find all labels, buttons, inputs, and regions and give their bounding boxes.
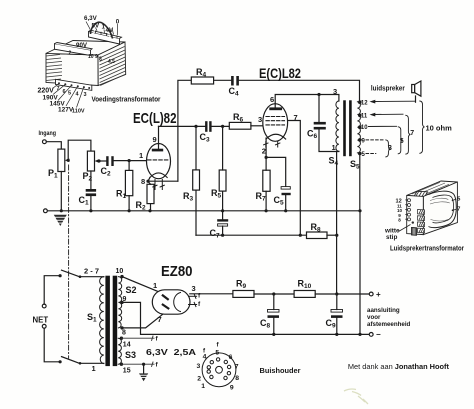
capacitor C9 <box>331 310 343 318</box>
svg-text:1: 1 <box>153 281 157 290</box>
wire P1 bottom to rail <box>60 172 62 211</box>
svg-text:15: 15 <box>123 368 131 375</box>
EZ80 anode 7 bar <box>163 305 169 309</box>
wire tap10 to EZ80 anode pin 1 <box>122 277 158 292</box>
node dot R2 bottom <box>148 209 151 212</box>
wire P2 wiper to C2 <box>100 160 106 162</box>
wire R5 top <box>222 126 224 170</box>
loudspeaker transformer pictorial <box>399 181 458 235</box>
wire pin8 to R2 <box>149 182 151 184</box>
terminal strip rear <box>89 32 120 45</box>
tube socket Buishouder <box>202 353 236 387</box>
svg-text:2: 2 <box>69 51 72 57</box>
svg-text:2: 2 <box>262 147 266 156</box>
C9 leads <box>336 294 338 310</box>
svg-text:luidspreker: luidspreker <box>371 84 405 93</box>
wire loop on top <box>91 22 113 38</box>
node dot R8 left <box>299 234 302 237</box>
wire P1 wiper to P2 top <box>68 140 91 160</box>
node dot C9 bottom <box>335 333 338 336</box>
coil band on right face <box>429 191 457 227</box>
svg-text:NET: NET <box>33 316 49 325</box>
wire C3 to R6 <box>212 125 230 127</box>
svg-text:1: 1 <box>139 151 143 160</box>
resistor R3 <box>193 170 200 190</box>
svg-text:6: 6 <box>229 354 233 361</box>
svg-text:9: 9 <box>153 135 157 144</box>
svg-text:3: 3 <box>258 115 262 124</box>
potentiometer P1 <box>58 149 65 171</box>
transformer body box <box>46 53 98 85</box>
svg-text:7: 7 <box>158 315 162 324</box>
resistor R8 <box>307 232 328 239</box>
svg-text:10 ohm: 10 ohm <box>426 124 453 133</box>
bracket 3 ohm <box>386 140 391 157</box>
wire R1 bottom to rail <box>128 196 130 211</box>
svg-text:5: 5 <box>457 197 460 203</box>
svg-text:1: 1 <box>332 143 336 152</box>
witte stip dot <box>412 221 414 223</box>
C6 leads <box>318 95 320 122</box>
svg-text:2 - 7: 2 - 7 <box>84 267 99 276</box>
ground rail left terminal <box>44 209 48 213</box>
EZ80 filament stubs <box>189 294 197 306</box>
svg-text:4,5: 4,5 <box>108 59 115 65</box>
Ingang input terminal <box>43 140 47 144</box>
node dot R7 bottom <box>265 209 268 212</box>
winding lug ladder <box>418 210 425 233</box>
filament line tap14 <box>121 336 154 340</box>
pentode cathode pin 2 node <box>265 156 268 159</box>
svg-text:5: 5 <box>215 350 219 357</box>
mains switch upper <box>59 270 104 278</box>
mains switch lower <box>59 357 104 365</box>
witte stip arrow <box>399 225 411 232</box>
svg-text:3: 3 <box>197 363 201 370</box>
front face <box>407 195 424 234</box>
svg-text:8: 8 <box>122 330 126 337</box>
wire P2 bottom to C1 <box>90 171 92 189</box>
svg-text:2: 2 <box>197 375 201 382</box>
wire R8 right <box>327 234 337 236</box>
svg-text:10: 10 <box>116 268 124 275</box>
output transformer S5 secondary winding <box>357 102 360 153</box>
svg-text:5: 5 <box>400 138 404 145</box>
svg-text:12: 12 <box>361 101 368 107</box>
ground symbol <box>53 215 68 226</box>
feedback top rail to speaker tap 12 <box>239 80 360 102</box>
wire R3 bottom to B+ node line <box>195 190 197 235</box>
resistor R5 <box>219 170 226 191</box>
loudspeaker transformer pin labels <box>396 197 461 223</box>
svg-text:voor: voor <box>367 314 381 321</box>
capacitor C1 <box>86 189 96 196</box>
svg-text:0: 0 <box>116 19 120 26</box>
wire R2 bottom to rail <box>150 204 152 211</box>
wire pin2 to R7 <box>265 157 267 170</box>
node dot tap15 ground <box>142 363 145 366</box>
terminal circles column <box>408 199 411 221</box>
svg-text:14: 14 <box>123 342 131 349</box>
svg-text:90V: 90V <box>76 42 88 49</box>
tap 5 dashed line <box>366 153 376 155</box>
NET terminal lower <box>42 324 46 328</box>
node dot R1 bottom <box>128 209 131 212</box>
svg-text:3: 3 <box>192 284 196 293</box>
bottom terminal dots <box>58 82 90 89</box>
svg-text:8: 8 <box>235 375 239 382</box>
node dot P1 bottom <box>60 209 63 212</box>
svg-text:stip: stip <box>386 234 397 241</box>
svg-text:−: − <box>376 330 381 339</box>
wire C2 to triode grid pin 1 <box>114 160 147 162</box>
P2 wiper arrow <box>95 159 101 163</box>
wire input to P1 top <box>46 142 61 149</box>
hatching right face <box>100 47 126 86</box>
tap 10 line <box>369 125 397 127</box>
svg-text:1: 1 <box>201 383 205 390</box>
wire R10 to plus terminal <box>315 293 369 295</box>
svg-text:Luidsprekertransformator: Luidsprekertransformator <box>390 246 464 253</box>
top face hatching <box>412 182 449 195</box>
wire R4 to C4 <box>214 79 232 81</box>
svg-text:8: 8 <box>99 57 102 63</box>
leader lines top labels <box>86 22 118 36</box>
node dot rail to B-minus <box>358 209 361 212</box>
resistor R9 <box>233 291 254 298</box>
pentode anode plate <box>269 104 282 111</box>
top lug block <box>414 191 428 198</box>
EZ80 anode 1 bar <box>163 295 168 299</box>
S2 tap dots 10 9 8 <box>120 275 123 330</box>
speaker icon <box>412 81 421 102</box>
scan smudges <box>344 389 368 404</box>
wire R9 to R10 <box>254 293 294 295</box>
svg-text:11: 11 <box>361 114 368 120</box>
C8 leads <box>273 294 275 310</box>
wire S4 bottom down to B plus <box>336 152 338 294</box>
svg-text:S3: S3 <box>125 350 136 360</box>
triode filament stubs f f <box>153 180 165 190</box>
svg-text:6: 6 <box>270 95 274 104</box>
node dot R8 right <box>335 234 338 237</box>
EZ80 cathode pin 3 wire to R9 <box>190 293 233 295</box>
filament line tap15 <box>121 362 154 366</box>
feedback riser R4 to cathode <box>178 80 191 181</box>
cathode line to feedback riser <box>148 178 178 182</box>
node dot B plus S4 riser <box>335 292 338 295</box>
capacitor C2 <box>106 156 114 166</box>
svg-text:E(C)L82: E(C)L82 <box>259 66 301 81</box>
wire NET to upper switch <box>44 276 60 304</box>
NET terminal upper <box>42 304 46 308</box>
triode anode plate <box>152 144 163 152</box>
resistor R6 <box>229 122 251 129</box>
lamination hatching left <box>46 55 62 81</box>
wire cathode down <box>265 138 267 157</box>
wire C7 leads <box>222 211 224 219</box>
power transformer voltage labels <box>69 15 120 65</box>
svg-text:9: 9 <box>123 296 127 303</box>
node dot C1 bottom <box>89 209 92 212</box>
svg-text:7: 7 <box>410 130 414 137</box>
power transformer core <box>105 276 117 366</box>
socket pin labels <box>197 342 240 392</box>
node dot C7 bottom <box>221 234 224 237</box>
capacitor C6 <box>314 122 326 130</box>
bottom terminal strip <box>56 79 92 90</box>
wire pin9 anode up <box>158 126 160 143</box>
right pin ticks <box>453 199 457 210</box>
svg-text:7: 7 <box>294 113 298 122</box>
svg-text:Ingang: Ingang <box>39 130 57 137</box>
terminal pins rear strip <box>90 30 117 39</box>
output transformer core <box>343 100 352 156</box>
svg-text:7: 7 <box>235 364 239 371</box>
wire S5 bottom tap5 to rail <box>359 154 361 211</box>
svg-text:7: 7 <box>57 86 60 92</box>
node dot R5 top <box>221 125 224 128</box>
terminal ticks left <box>405 200 407 220</box>
wire R5 bottom to rail <box>222 191 224 211</box>
tap 11 arrow line <box>370 113 404 117</box>
svg-text:3: 3 <box>333 87 337 96</box>
ground symbol S3 <box>138 364 149 381</box>
triode cathode arc <box>150 173 167 178</box>
node dot C8 bottom <box>272 333 275 336</box>
svg-text:10 9: 10 9 <box>88 54 98 60</box>
bracket 5 ohm <box>398 127 403 154</box>
tap 9 dashed line <box>366 139 385 141</box>
S5 tap dots <box>358 100 362 155</box>
triode grid dashed line <box>148 159 169 161</box>
bottom connector strip <box>412 228 417 236</box>
resistor R2 <box>147 184 154 203</box>
resistor R10 <box>294 291 315 298</box>
svg-text:8: 8 <box>398 218 401 223</box>
bracket 7 ohm <box>406 115 411 154</box>
triode EC(L)82 envelope <box>147 144 171 179</box>
capacitor C7 <box>217 219 228 226</box>
capacitor C5 <box>281 187 291 196</box>
wire grid node to R1 <box>128 161 130 171</box>
svg-text:4: 4 <box>203 354 207 361</box>
node dot C6 top <box>317 93 320 96</box>
ground rail <box>47 210 360 212</box>
svg-text:5: 5 <box>68 91 71 97</box>
triode anode line to C3/R6 <box>159 125 206 127</box>
pentode filament stubs <box>264 142 280 148</box>
secondary S3 winding 6.3V <box>118 338 121 364</box>
node dot B minus rail junction <box>358 333 361 336</box>
P1 wiper arrow <box>65 159 70 163</box>
svg-text:Buishouder: Buishouder <box>260 366 301 375</box>
svg-text:5V: 5V <box>92 23 100 30</box>
potentiometer P2 <box>87 151 94 171</box>
svg-text:Voedingstransformator: Voedingstransformator <box>92 97 161 104</box>
node dot R3 top <box>194 125 197 128</box>
capacitor C8 <box>268 310 280 318</box>
pentode cathode arc <box>266 134 286 139</box>
wire NET to lower switch <box>44 328 60 362</box>
right pin dots <box>452 200 454 202</box>
svg-text:3: 3 <box>84 92 87 98</box>
wire rail down to B minus line <box>359 211 361 335</box>
svg-text:Met dank aan Jonathan Hooft: Met dank aan Jonathan Hooft <box>348 362 450 371</box>
svg-text:110V: 110V <box>72 109 85 115</box>
triode cathode pin 8 node <box>146 180 149 183</box>
svg-text:EC(L)82: EC(L)82 <box>133 111 177 127</box>
svg-text:4V: 4V <box>106 27 114 34</box>
power transformer S1 primary winding <box>100 277 104 364</box>
secondary S2 winding <box>118 277 121 328</box>
minus terminal <box>369 333 373 337</box>
resistor R4 <box>191 77 213 84</box>
svg-text:10: 10 <box>361 125 368 131</box>
pentode grid dashed lines <box>266 117 285 125</box>
pentode anode pin 6 wire to transformer pin 3 <box>275 95 339 104</box>
svg-text:EZ80: EZ80 <box>161 264 193 280</box>
capacitor C3 <box>205 121 211 132</box>
body top face <box>407 181 458 196</box>
mechanical coupling dash-dot line <box>68 165 70 358</box>
capacitor C4 <box>231 76 239 86</box>
svg-text:+: + <box>376 290 381 299</box>
resistor R1 <box>125 170 132 195</box>
resistor R7 <box>263 170 270 191</box>
leader lines bottom labels <box>53 84 84 108</box>
svg-text:220V: 220V <box>38 88 55 95</box>
wire tap8 to EZ80 anode pin 7 <box>122 314 163 328</box>
rectifier EZ80 envelope <box>152 290 190 314</box>
svg-text:3: 3 <box>388 145 392 152</box>
terminal strip front <box>55 44 91 56</box>
B+ node line with R8 <box>196 234 307 236</box>
node dot R1 top <box>128 159 131 162</box>
label witte stip <box>384 228 400 241</box>
wire pin2 to C5 <box>266 157 286 186</box>
output transformer S4 primary winding <box>336 101 339 151</box>
wire tap9 to B minus line <box>122 302 370 334</box>
label aansluiting voor afstemeenheid <box>367 307 411 328</box>
svg-text:7: 7 <box>457 207 460 213</box>
wire R7 to rail <box>265 191 267 211</box>
svg-text:9: 9 <box>230 385 234 392</box>
wire C5 to rail <box>285 195 287 211</box>
svg-text:8: 8 <box>141 177 145 186</box>
body right face <box>423 182 457 235</box>
wire R6 to pentode grid pin 3 <box>251 125 263 127</box>
wire R3 top <box>195 126 197 169</box>
tap 12 arrow line <box>370 100 415 104</box>
plus terminal <box>369 292 373 296</box>
node dot C8 top <box>272 292 275 295</box>
svg-text:6,3V: 6,3V <box>84 15 98 22</box>
svg-text:afstemeenheid: afstemeenheid <box>367 321 411 328</box>
svg-text:S2: S2 <box>126 285 137 295</box>
svg-text:6: 6 <box>63 89 66 95</box>
svg-text:aansluiting: aansluiting <box>367 307 400 314</box>
power transformer pictorial Voedingstransformator <box>46 22 126 108</box>
S3 tap dots 14 15 <box>120 337 123 366</box>
node dot R5/C7 <box>221 209 224 212</box>
pentode screen pin 7 wire down <box>288 121 301 236</box>
wire C1 to rail <box>90 196 92 211</box>
bracket 10 ohm <box>420 101 425 153</box>
svg-text:1: 1 <box>92 364 96 373</box>
pentode E(C)L82 envelope <box>263 104 288 142</box>
node dot C5 bottom <box>284 209 287 212</box>
svg-text:6,3V 2,5A: 6,3V 2,5A <box>146 347 196 357</box>
